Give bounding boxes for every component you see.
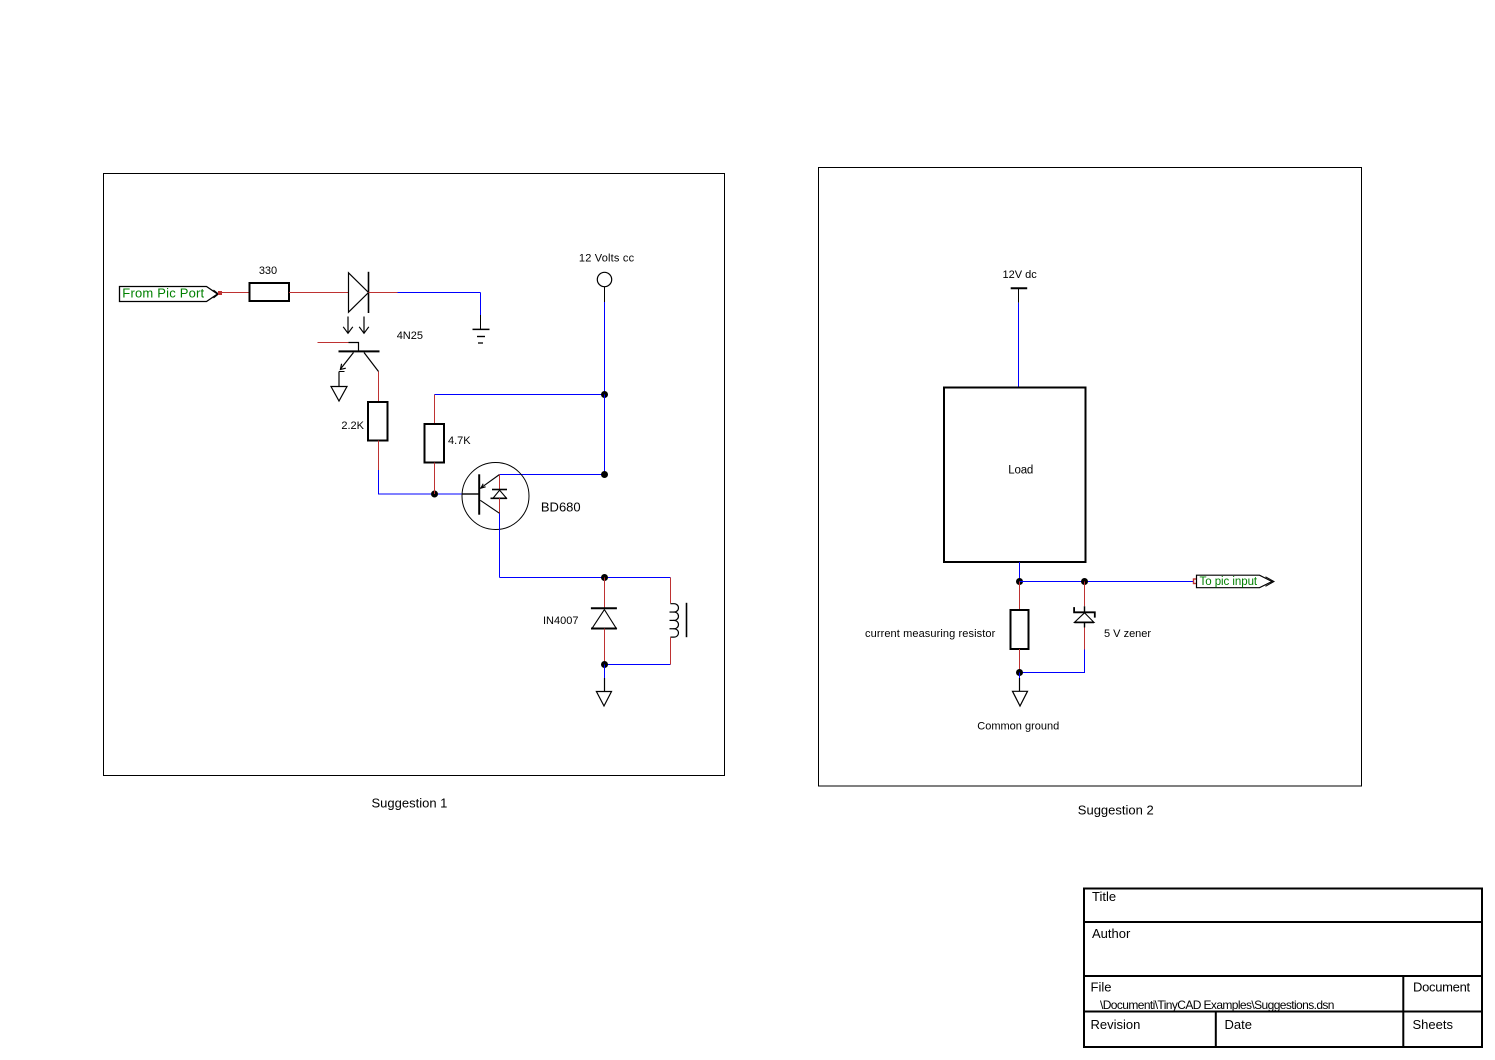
node junction <box>601 391 608 398</box>
wire <box>434 395 436 425</box>
LED of optocoupler U1 (4N25) <box>349 272 369 313</box>
wire <box>398 292 481 294</box>
wire <box>604 629 606 665</box>
svg-text:\Documenti\TinyCAD Examples\Su: \Documenti\TinyCAD Examples\Suggestions.… <box>1100 998 1334 1012</box>
ground (open triangle) Common ground <box>977 691 1059 732</box>
relay coil L1 <box>670 578 687 665</box>
zener diode Z1 (5 V zener) <box>1074 606 1151 640</box>
wire <box>1084 582 1086 607</box>
emission arrow 1 <box>343 317 353 334</box>
svg-text:Revision: Revision <box>1091 1017 1141 1032</box>
wire <box>500 577 671 579</box>
svg-text:Common ground: Common ground <box>977 721 1059 733</box>
sheet border box 2 <box>819 168 1362 787</box>
svg-text:Author: Author <box>1092 926 1131 941</box>
svg-text:File: File <box>1091 980 1112 995</box>
ground lead <box>1019 673 1021 679</box>
svg-text:5 V zener: 5 V zener <box>1104 628 1151 640</box>
junction square (port pin) <box>1194 579 1199 584</box>
transistor Q1 BD680 <box>462 463 581 530</box>
ground (open triangle) <box>596 692 611 707</box>
svg-text:12 Volts cc: 12 Volts cc <box>579 253 635 265</box>
wire <box>605 664 671 666</box>
wire <box>480 293 482 316</box>
port label To pic input <box>1197 575 1275 588</box>
svg-text:Load: Load <box>1008 465 1033 477</box>
wire <box>369 292 398 294</box>
wire <box>604 578 606 609</box>
resistor R (current measuring resistor) <box>865 610 1029 649</box>
node junction <box>431 491 438 498</box>
wire <box>435 394 605 396</box>
svg-text:current measuring resistor: current measuring resistor <box>865 628 996 640</box>
wire <box>434 463 436 495</box>
title block texts <box>1091 889 1471 1032</box>
wire <box>1018 303 1020 388</box>
svg-text:12V dc: 12V dc <box>1003 269 1038 281</box>
svg-text:IN4007: IN4007 <box>543 615 578 627</box>
junction square (port pin) <box>218 291 222 295</box>
diode D1 IN4007 <box>543 608 617 628</box>
wire <box>222 292 250 294</box>
wire <box>289 292 349 294</box>
wire <box>1019 562 1021 582</box>
ground (earth) <box>473 329 490 343</box>
resistor R 4.7K <box>425 424 472 463</box>
svg-text:4N25: 4N25 <box>397 330 423 342</box>
svg-text:Date: Date <box>1225 1017 1252 1032</box>
svg-text:330: 330 <box>259 265 277 277</box>
resistor 330 <box>250 265 290 301</box>
wire <box>1020 650 1085 673</box>
resistor R 2.2K <box>341 402 387 441</box>
ground (open triangle) under emitter <box>331 387 347 402</box>
node junction <box>601 471 608 478</box>
load block <box>944 388 1086 563</box>
emission arrow 2 <box>359 317 369 334</box>
sheet border box 1 <box>104 174 725 776</box>
wire <box>379 470 463 494</box>
svg-text:Suggestion 2: Suggestion 2 <box>1078 802 1154 817</box>
svg-text:To pic input: To pic input <box>1200 576 1258 588</box>
svg-text:Document: Document <box>1413 980 1471 995</box>
wire <box>1019 649 1021 673</box>
svg-text:Suggestion 1: Suggestion 1 <box>372 796 448 811</box>
svg-text:From Pic Port: From Pic Port <box>122 286 204 301</box>
wire <box>500 474 605 476</box>
node junction <box>601 661 608 668</box>
ground lead <box>480 315 482 329</box>
wire <box>378 441 380 471</box>
power terminal 12V dc <box>1003 269 1038 303</box>
power terminal 12 Volts cc <box>579 253 635 303</box>
node junction <box>1081 578 1088 585</box>
svg-text:2.2K: 2.2K <box>341 420 364 432</box>
svg-text:BD680: BD680 <box>541 500 581 515</box>
port label From Pic Port <box>120 286 219 302</box>
title block frame <box>1084 889 1482 1048</box>
wire <box>378 372 380 403</box>
node junction <box>1016 669 1023 676</box>
svg-text:4.7K: 4.7K <box>448 435 471 447</box>
wire <box>604 395 606 475</box>
svg-text:Sheets: Sheets <box>1413 1017 1454 1032</box>
svg-text:Title: Title <box>1092 889 1116 904</box>
wire <box>499 514 501 578</box>
wire <box>1084 628 1086 650</box>
wire <box>604 302 606 395</box>
ground lead <box>604 665 606 679</box>
node junction <box>601 574 608 581</box>
wire <box>1020 581 1195 583</box>
wire <box>1019 582 1021 611</box>
phototransistor of U1 <box>318 343 380 387</box>
node junction <box>1016 578 1023 585</box>
